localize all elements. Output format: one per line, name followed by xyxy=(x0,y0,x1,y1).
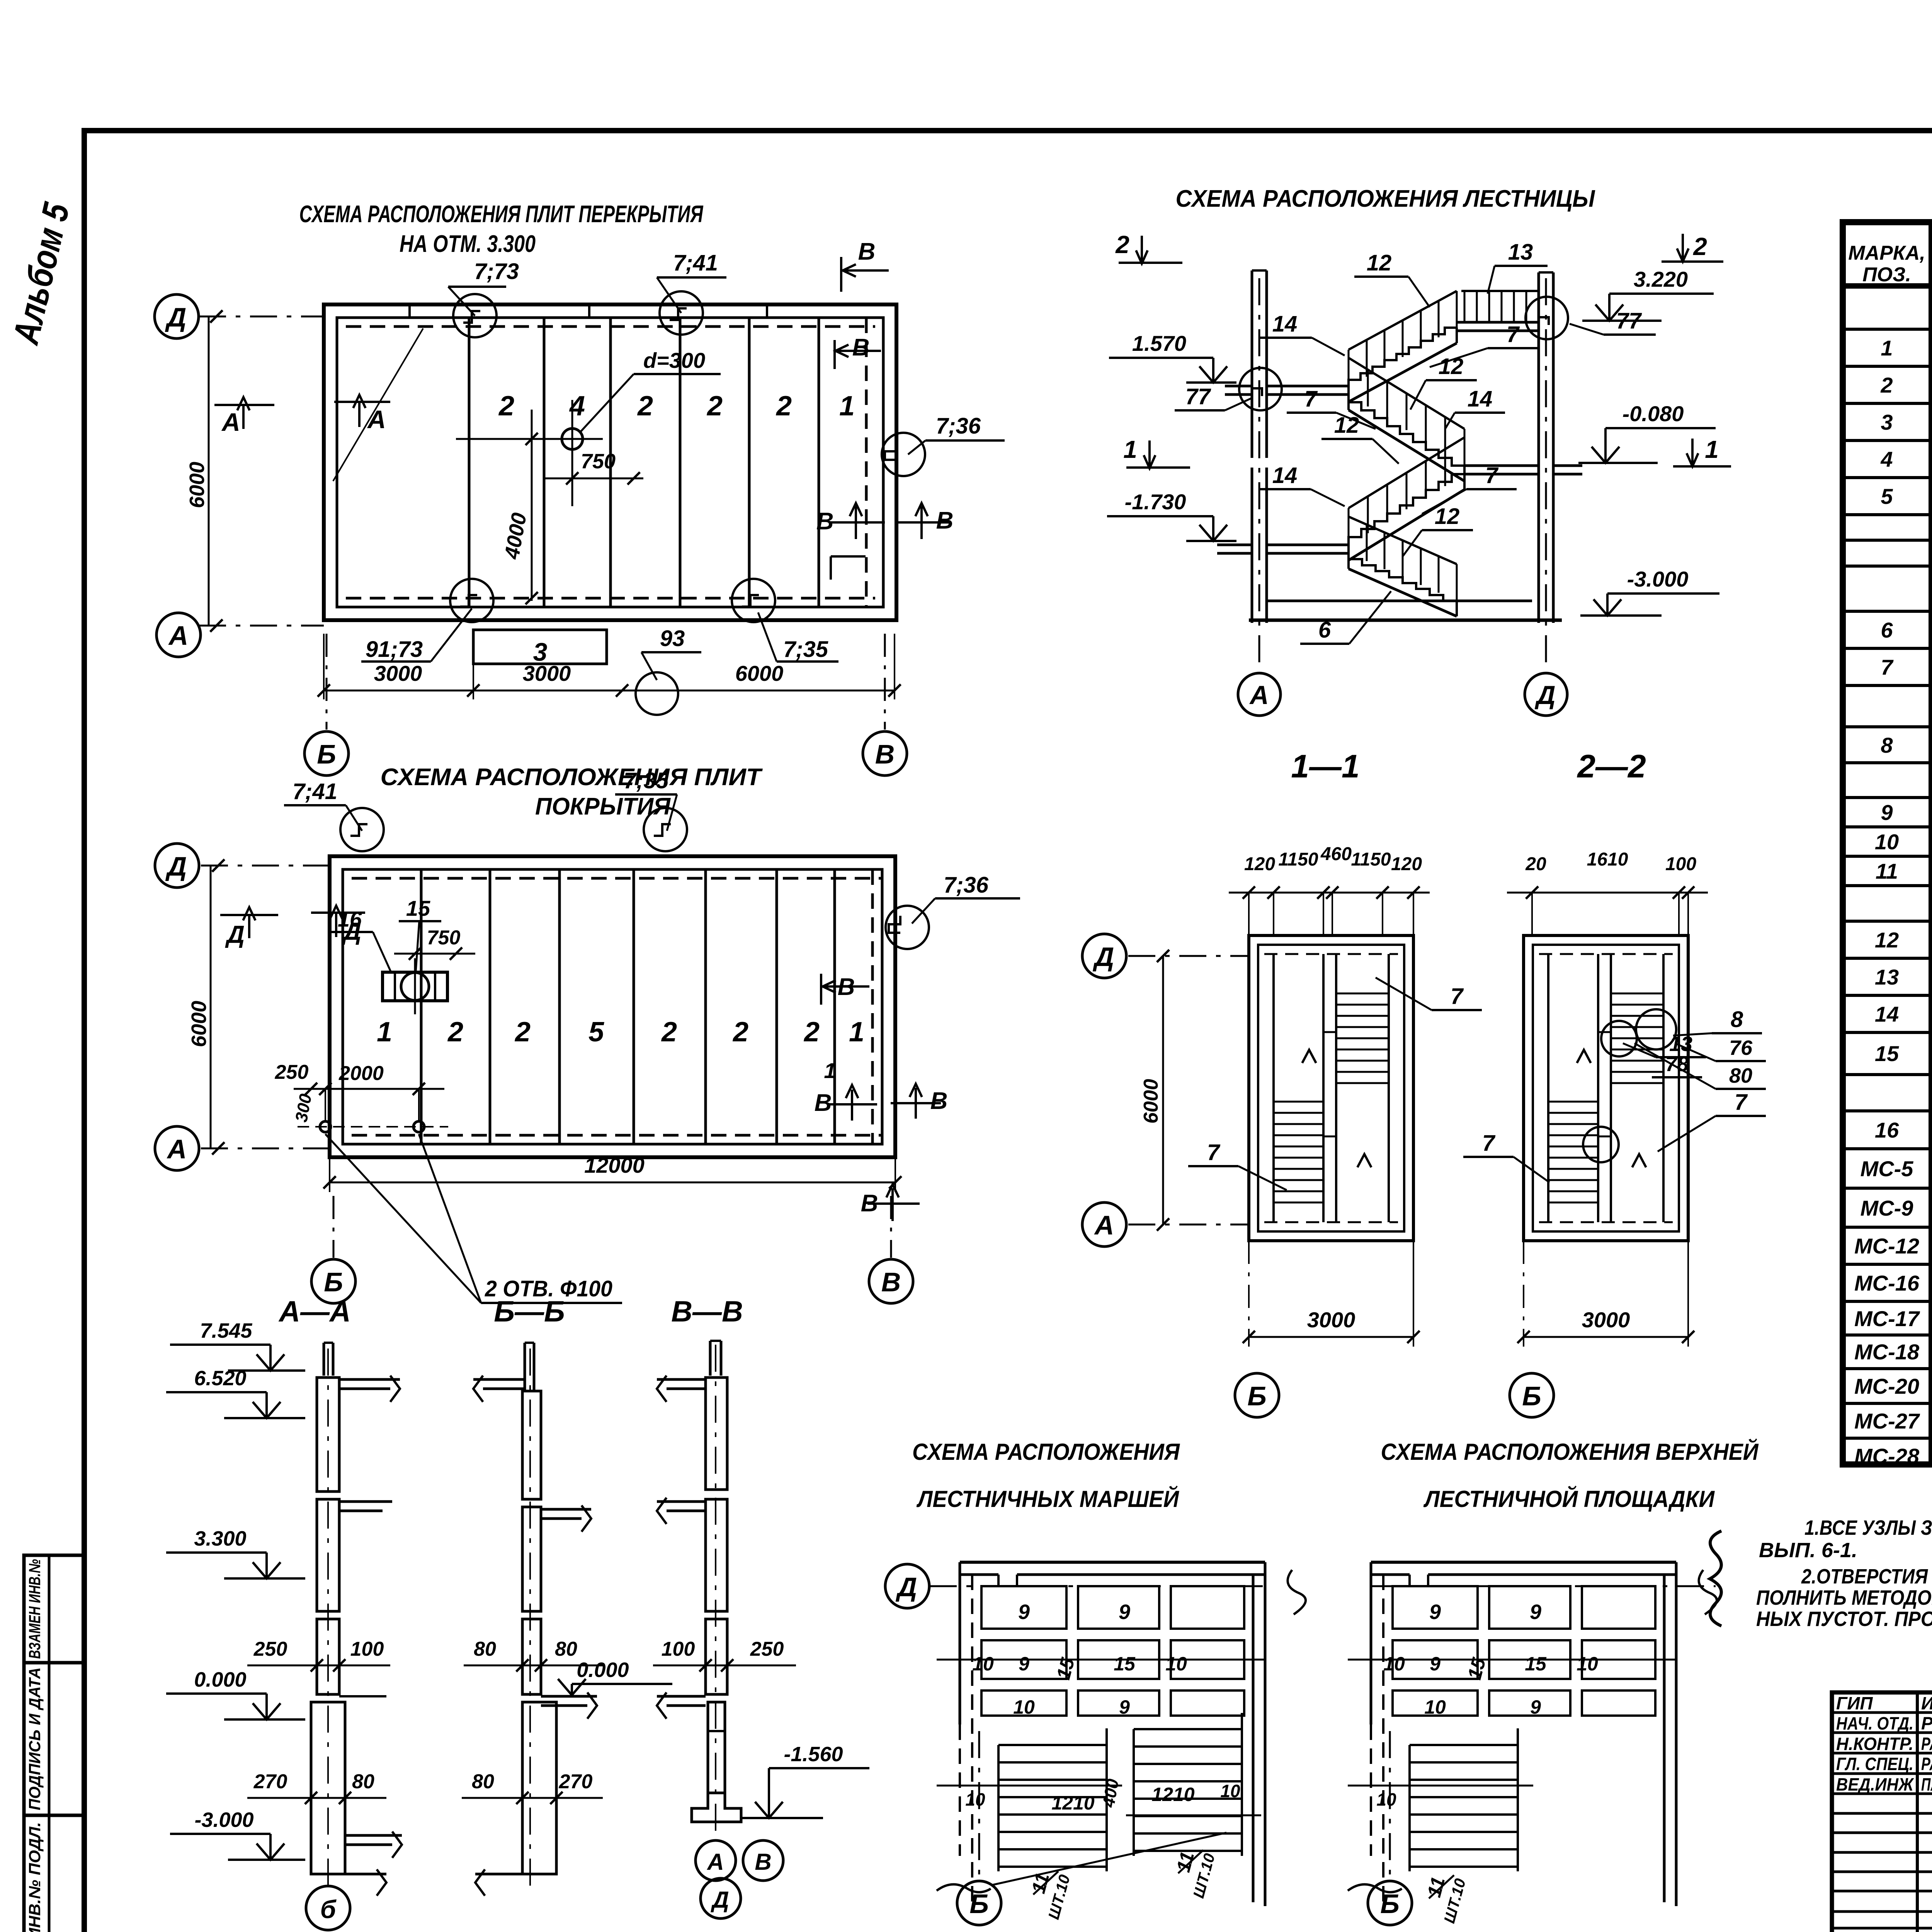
svg-text:7;35: 7;35 xyxy=(624,768,669,793)
svg-text:Б: Б xyxy=(1380,1889,1400,1919)
stairs outside slab right -0080 xyxy=(1553,464,1582,467)
svg-text:2—2: 2—2 xyxy=(1577,748,1646,784)
svg-text:б: б xyxy=(320,1895,337,1923)
svg-text:3000: 3000 xyxy=(1307,1308,1355,1332)
B-B lower wall xyxy=(522,1619,541,1694)
svg-text:7;41: 7;41 xyxy=(673,250,718,276)
svg-text:Б: Б xyxy=(1522,1381,1541,1411)
svg-text:2: 2 xyxy=(732,1017,748,1048)
svg-text:5: 5 xyxy=(1881,484,1893,509)
stairs flight third xyxy=(1349,474,1464,545)
A-A bottom slab stub xyxy=(345,1834,402,1837)
svg-text:9: 9 xyxy=(1530,1600,1541,1624)
V-V floor stub left 3300 xyxy=(657,1500,706,1503)
svg-text:15: 15 xyxy=(1875,1041,1899,1066)
svg-text:МС-5: МС-5 xyxy=(1861,1156,1914,1181)
plan 1-1 dim 6000 xyxy=(1162,956,1164,1225)
svg-text:ПАНКРАТОВА: ПАНКРАТОВА xyxy=(1921,1774,1932,1794)
plan2 section mark D left xyxy=(220,914,278,916)
svg-text:ВЗАМЕН ИНВ.№: ВЗАМЕН ИНВ.№ xyxy=(26,1559,44,1659)
svg-text:Д: Д xyxy=(1534,680,1555,710)
svg-text:2: 2 xyxy=(661,1017,677,1048)
svg-text:2: 2 xyxy=(1880,373,1893,397)
svg-text:3.220: 3.220 xyxy=(1634,267,1688,291)
svg-text:7: 7 xyxy=(1482,1131,1496,1156)
plan1 axis A line xyxy=(199,625,324,627)
svg-text:1.570: 1.570 xyxy=(1132,331,1186,355)
svg-text:В: В xyxy=(875,739,895,769)
plan1 plate 3 below xyxy=(473,630,607,664)
plan1 outer walls xyxy=(324,304,896,620)
svg-text:10: 10 xyxy=(1875,830,1899,854)
svg-text:1: 1 xyxy=(839,391,855,422)
svg-text:2.ОТВЕРСТИЯ В МНОГОПУСТОТНЫХ П: 2.ОТВЕРСТИЯ В МНОГОПУСТОТНЫХ ПЛИТАХ ДО 1… xyxy=(1801,1565,1932,1588)
svg-text:Б: Б xyxy=(324,1267,343,1297)
svg-text:МС-18: МС-18 xyxy=(1854,1340,1920,1364)
B-B floor slab 0000 xyxy=(541,1695,597,1698)
svg-text:14: 14 xyxy=(1272,463,1298,488)
stairs axis circle A xyxy=(1238,673,1281,716)
plan2 interior dashed bottom xyxy=(352,1134,881,1137)
svg-text:12: 12 xyxy=(1435,504,1460,529)
stairs node circle 77 left xyxy=(1239,368,1282,410)
svg-text:-0.080: -0.080 xyxy=(1622,401,1684,426)
svg-text:9: 9 xyxy=(1429,1600,1441,1624)
svg-text:9: 9 xyxy=(1530,1696,1541,1718)
svg-text:12: 12 xyxy=(1439,354,1464,379)
plan1 node circle 7-35 xyxy=(732,579,775,622)
svg-text:Б: Б xyxy=(1247,1381,1267,1411)
sidebar box xyxy=(24,1555,84,1932)
plan1 axis circle V bottom xyxy=(863,731,907,776)
svg-text:12000: 12000 xyxy=(584,1153,645,1177)
stairs outside slab left -1730 xyxy=(1217,544,1252,546)
svg-text:20: 20 xyxy=(1525,854,1546,874)
stairs left wall xyxy=(1251,270,1253,458)
svg-text:НА ОТМ. 3.300: НА ОТМ. 3.300 xyxy=(400,231,536,257)
svg-text:А: А xyxy=(1094,1210,1114,1240)
svg-text:7;36: 7;36 xyxy=(944,872,989,898)
plan1 axis circle D xyxy=(155,294,199,338)
plan 1-1 axis B xyxy=(1235,1373,1279,1417)
svg-text:10: 10 xyxy=(965,1789,985,1810)
plan1 axis B extension xyxy=(326,634,328,730)
svg-text:1.ВСЕ УЗЛЫ ЗАМАРКИРОВАНЫ ПО СЕ: 1.ВСЕ УЗЛЫ ЗАМАРКИРОВАНЫ ПО СЕРИИ 1.090.… xyxy=(1804,1516,1932,1539)
plan1 node circle bottom left xyxy=(450,579,493,622)
svg-text:1: 1 xyxy=(1881,336,1893,360)
svg-text:14: 14 xyxy=(1272,311,1298,337)
svg-text:91;73: 91;73 xyxy=(366,637,423,662)
A-A foundation wall xyxy=(311,1702,345,1874)
svg-text:77: 77 xyxy=(1185,384,1211,409)
svg-text:ГИП: ГИП xyxy=(1836,1693,1873,1713)
svg-text:СХЕМА РАСПОЛОЖЕНИЯ: СХЕМА РАСПОЛОЖЕНИЯ xyxy=(912,1439,1180,1465)
svg-text:7;36: 7;36 xyxy=(936,413,981,439)
svg-text:1210: 1210 xyxy=(1051,1792,1094,1814)
V-V floor stub 0000 xyxy=(657,1695,706,1698)
btm plan flight treads xyxy=(1410,1744,1518,1746)
svg-text:15: 15 xyxy=(1114,1653,1136,1675)
btm plan diagonal cut xyxy=(993,1833,1226,1885)
B-B upper wall xyxy=(522,1391,541,1499)
svg-text:Д: Д xyxy=(225,920,245,948)
svg-text:А: А xyxy=(706,1849,724,1875)
spec table outer border xyxy=(1843,222,1932,1464)
plan 2-2 node circles xyxy=(1601,1021,1637,1056)
plan1 axis circle B bottom xyxy=(304,731,349,776)
V-V mid wall xyxy=(706,1499,727,1611)
svg-text:НЫХ ПУСТОТ. ПРОБИВАТЬ ОТВЕР: НЫХ ПУСТОТ. ПРОБИВАТЬ ОТВЕРСТИЯ НЕ ДОПУС… xyxy=(1756,1607,1932,1631)
plan1 section mark A left xyxy=(214,404,274,406)
svg-text:Б: Б xyxy=(317,739,336,769)
svg-text:СХЕМА РАСПОЛОЖЕНИЯ ПЛИТ ПЕР: СХЕМА РАСПОЛОЖЕНИЯ ПЛИТ ПЕРЕКРЫТИЯ xyxy=(299,201,704,228)
svg-text:В: В xyxy=(852,334,870,361)
svg-text:ПОЛНИТЬ МЕТОДОМ РАССВЕРЛОВКИ: ПОЛНИТЬ МЕТОДОМ РАССВЕРЛОВКИ В МЕСТАХ ПР… xyxy=(1756,1586,1932,1609)
svg-text:В—В: В—В xyxy=(671,1295,743,1328)
svg-text:16: 16 xyxy=(1875,1118,1899,1142)
btm plan break squiggle left bottom xyxy=(937,1884,991,1892)
svg-text:750: 750 xyxy=(581,450,616,473)
plan1 callout circle 93 xyxy=(636,672,678,715)
svg-text:2: 2 xyxy=(637,391,653,422)
btm1 axis D line xyxy=(930,1585,1271,1587)
A-A roof slab stub xyxy=(339,1378,400,1381)
A-A upper wall xyxy=(317,1378,339,1492)
svg-text:Д: Д xyxy=(1093,942,1114,972)
plan1 dashed right vertical xyxy=(865,318,868,607)
svg-text:1: 1 xyxy=(1705,435,1719,463)
svg-text:120: 120 xyxy=(1391,854,1422,874)
svg-text:В: В xyxy=(755,1849,771,1875)
svg-text:Н.КОНТР.: Н.КОНТР. xyxy=(1836,1734,1913,1754)
svg-text:МС-28: МС-28 xyxy=(1854,1444,1920,1468)
svg-text:7: 7 xyxy=(1881,655,1894,679)
plan1 dim 6000 left xyxy=(208,316,210,626)
V-V top post xyxy=(709,1341,712,1376)
svg-text:9: 9 xyxy=(1018,1600,1030,1624)
svg-text:270: 270 xyxy=(559,1770,593,1793)
svg-text:НАЧ. ОТД.: НАЧ. ОТД. xyxy=(1836,1713,1913,1733)
svg-text:-1.730: -1.730 xyxy=(1125,490,1186,514)
svg-text:2000: 2000 xyxy=(338,1062,384,1085)
plan 2-2 top dims xyxy=(1507,892,1708,894)
V-V footing xyxy=(692,1793,741,1822)
stairs outside slab left 1570 xyxy=(1225,385,1252,388)
svg-text:-1.560: -1.560 xyxy=(784,1743,843,1766)
svg-text:7;35: 7;35 xyxy=(783,637,828,662)
svg-text:10: 10 xyxy=(1013,1696,1035,1718)
stairs pit floor -3000 xyxy=(1267,600,1532,602)
plan2 axis D line xyxy=(201,865,330,867)
svg-text:6: 6 xyxy=(1318,617,1331,643)
svg-text:МС-17: МС-17 xyxy=(1854,1306,1920,1331)
B-B centerline xyxy=(529,1349,531,1893)
svg-text:ПОДПИСЬ И ДАТА: ПОДПИСЬ И ДАТА xyxy=(26,1667,44,1810)
plan1 hole d300 circle xyxy=(562,429,583,449)
table empty row xyxy=(1843,539,1932,542)
spec table header row xyxy=(1843,283,1932,289)
svg-text:В: В xyxy=(881,1267,901,1297)
svg-text:7;41: 7;41 xyxy=(293,779,337,804)
svg-text:А: А xyxy=(221,408,240,436)
A-A middle wall xyxy=(317,1499,339,1611)
plan1 node circle 7-41 xyxy=(660,291,703,335)
plan2 small holes 2otv xyxy=(320,1121,331,1132)
svg-text:МС-12: МС-12 xyxy=(1854,1234,1919,1258)
A-A bottom stub xyxy=(333,1873,386,1876)
svg-text:0.000: 0.000 xyxy=(194,1668,246,1691)
svg-text:1: 1 xyxy=(849,1017,864,1048)
svg-text:7: 7 xyxy=(1207,1140,1221,1165)
svg-text:2: 2 xyxy=(803,1017,820,1048)
B-B roof stub left xyxy=(473,1378,525,1381)
svg-text:А: А xyxy=(168,621,189,651)
plan2 node circle 7-36 xyxy=(886,906,929,949)
plan2 bottom dimension 12000 xyxy=(330,1182,895,1184)
svg-text:3: 3 xyxy=(533,638,548,666)
svg-text:10: 10 xyxy=(1577,1653,1598,1675)
svg-text:7: 7 xyxy=(1735,1090,1748,1115)
svg-text:4: 4 xyxy=(1880,447,1893,471)
svg-text:ГЛ. СПЕЦ.: ГЛ. СПЕЦ. xyxy=(1836,1754,1913,1774)
svg-text:13: 13 xyxy=(1669,1032,1692,1056)
svg-text:МС-16: МС-16 xyxy=(1854,1271,1920,1295)
B-B mid wall xyxy=(522,1507,541,1611)
plan2 axis circle D xyxy=(155,844,199,888)
plan2 hole frame 16 xyxy=(383,972,447,1001)
svg-text:93: 93 xyxy=(660,626,685,651)
svg-text:-3.000: -3.000 xyxy=(194,1808,253,1832)
B-B top mast xyxy=(524,1343,526,1391)
svg-text:100: 100 xyxy=(662,1638,695,1660)
svg-text:3: 3 xyxy=(1881,410,1893,434)
svg-text:МС-27: МС-27 xyxy=(1854,1409,1920,1433)
svg-text:6000: 6000 xyxy=(187,1001,211,1047)
svg-text:16: 16 xyxy=(338,907,362,931)
svg-text:ЛЕСТНИЧНОЙ ПЛОЩАДКИ: ЛЕСТНИЧНОЙ ПЛОЩАДКИ xyxy=(1423,1486,1715,1512)
svg-text:СХЕМА РАСПОЛОЖЕНИЯ ПЛИТ: СХЕМА РАСПОЛОЖЕНИЯ ПЛИТ xyxy=(381,764,763,791)
plan2 axis V extension xyxy=(890,1196,892,1258)
svg-text:250: 250 xyxy=(253,1638,287,1660)
svg-text:120: 120 xyxy=(1244,854,1275,874)
svg-text:МС-9: МС-9 xyxy=(1861,1196,1913,1220)
btm plan break squiggle right xyxy=(1699,1570,1717,1614)
svg-text:14: 14 xyxy=(1875,1002,1899,1026)
stairs axis circle D xyxy=(1525,673,1567,716)
plan 1-1 top dims xyxy=(1229,892,1430,894)
svg-text:МС-20: МС-20 xyxy=(1854,1374,1919,1398)
btm plan slab grid xyxy=(1393,1586,1478,1629)
svg-text:ПОЗ.: ПОЗ. xyxy=(1862,264,1911,286)
svg-text:10: 10 xyxy=(1424,1696,1446,1718)
svg-text:А: А xyxy=(1249,680,1269,710)
svg-text:1610: 1610 xyxy=(1587,849,1628,870)
V-V centerline xyxy=(715,1345,716,1839)
btm plan top wall xyxy=(1371,1561,1676,1564)
svg-text:750: 750 xyxy=(427,927,461,949)
plan2 axis B extension xyxy=(333,1196,335,1258)
plan2 axis A line xyxy=(201,1148,330,1150)
svg-text:13: 13 xyxy=(1875,965,1899,989)
svg-text:7.545: 7.545 xyxy=(200,1319,252,1342)
svg-text:Б: Б xyxy=(969,1889,989,1919)
btm plan top wall xyxy=(960,1561,1265,1564)
stairs landing left -1730 xyxy=(1267,544,1349,546)
V-V upper wall xyxy=(706,1378,727,1490)
btm plan right wall xyxy=(1252,1575,1255,1902)
V-V column below xyxy=(708,1702,725,1793)
svg-text:2: 2 xyxy=(1693,233,1707,260)
svg-text:2: 2 xyxy=(447,1017,463,1048)
svg-text:РЫБКИНА: РЫБКИНА xyxy=(1921,1713,1932,1733)
plan 2-2 axis B xyxy=(1510,1373,1554,1417)
A-A centerline xyxy=(327,1349,329,1893)
svg-text:2: 2 xyxy=(514,1017,531,1048)
B-B bottom stub xyxy=(475,1873,530,1876)
plan2 axis circle B bottom xyxy=(311,1259,355,1303)
plan 2-2 walls and stairs xyxy=(1524,935,1688,1241)
stairs flight second xyxy=(1349,395,1464,466)
btm plan left wall xyxy=(959,1562,961,1725)
svg-text:-3.000: -3.000 xyxy=(1627,567,1689,591)
svg-text:А: А xyxy=(367,405,386,434)
svg-text:4: 4 xyxy=(569,391,585,422)
svg-text:80: 80 xyxy=(472,1770,494,1793)
svg-text:5: 5 xyxy=(588,1017,604,1048)
svg-text:270: 270 xyxy=(253,1770,287,1793)
svg-text:Д: Д xyxy=(710,1887,729,1913)
stairs landing left 1570 xyxy=(1267,385,1349,388)
signature table box xyxy=(1832,1692,1932,1932)
A-A axis circle b xyxy=(306,1886,350,1930)
plan1 interior dashed top xyxy=(346,325,875,328)
svg-text:Д: Д xyxy=(896,1572,917,1602)
svg-text:80: 80 xyxy=(352,1770,374,1793)
plan2 section mark D right xyxy=(311,912,365,914)
btm plan left wall xyxy=(1370,1562,1372,1725)
plan1 section mark A right xyxy=(334,401,390,403)
svg-text:А: А xyxy=(167,1134,187,1164)
svg-text:1150: 1150 xyxy=(1278,849,1318,870)
svg-text:1: 1 xyxy=(1123,435,1137,463)
A-A lower wall xyxy=(317,1619,339,1694)
svg-text:10: 10 xyxy=(1383,1653,1405,1675)
svg-text:Д: Д xyxy=(165,302,187,332)
svg-text:15: 15 xyxy=(1525,1653,1547,1675)
svg-text:В: В xyxy=(936,507,954,534)
plan 1-1 dim 3000 xyxy=(1249,1336,1413,1338)
A-A floor stub 0000 xyxy=(339,1695,386,1697)
svg-text:РАШЕВСКИЙ: РАШЕВСКИЙ xyxy=(1921,1734,1932,1754)
svg-text:7: 7 xyxy=(1304,386,1318,412)
svg-text:В: В xyxy=(858,238,876,265)
svg-text:1210: 1210 xyxy=(1151,1784,1194,1805)
svg-text:ПОКРЫТИЯ: ПОКРЫТИЯ xyxy=(535,793,671,820)
stairs bottom line xyxy=(1249,619,1562,622)
btm1 axis circle B xyxy=(957,1881,1001,1925)
svg-text:12: 12 xyxy=(1367,250,1392,276)
svg-text:Д: Д xyxy=(165,851,187,881)
svg-text:100: 100 xyxy=(1665,854,1696,874)
plan2 dim 6000 left xyxy=(210,866,212,1148)
svg-text:11: 11 xyxy=(1876,859,1898,883)
V-V axis circles A V D xyxy=(696,1840,736,1881)
plan2 plate divider lines xyxy=(420,869,423,1144)
svg-text:9: 9 xyxy=(1881,800,1893,825)
svg-text:d=300: d=300 xyxy=(643,348,705,372)
svg-text:0.000: 0.000 xyxy=(577,1658,629,1682)
svg-text:ИВАНОВА: ИВАНОВА xyxy=(1921,1693,1932,1713)
stairs axis line D xyxy=(1545,278,1547,672)
btm plan slab grid xyxy=(981,1586,1066,1629)
btm plan break squiggle right xyxy=(1287,1570,1306,1614)
plan1 node circle 7-73 xyxy=(453,294,497,337)
btm2 axis line xyxy=(1371,1585,1716,1587)
svg-text:1: 1 xyxy=(824,1058,836,1083)
svg-text:10: 10 xyxy=(1220,1781,1240,1801)
btm1 axis circle D xyxy=(885,1564,929,1608)
stairs landing top right 3220 xyxy=(1457,321,1539,324)
svg-text:ИНВ.№ ПОДЛ.: ИНВ.№ ПОДЛ. xyxy=(26,1822,44,1932)
plan2 outer walls xyxy=(330,856,895,1157)
svg-text:А—А: А—А xyxy=(278,1295,351,1328)
plan2 axis circle A xyxy=(155,1126,199,1170)
svg-text:10: 10 xyxy=(1376,1789,1396,1810)
svg-text:9: 9 xyxy=(1430,1653,1440,1675)
svg-text:6000: 6000 xyxy=(735,661,784,685)
svg-text:2: 2 xyxy=(498,391,514,422)
B-B foundation xyxy=(522,1702,556,1874)
svg-text:1: 1 xyxy=(377,1017,392,1048)
svg-text:ВЫП. 6-1.: ВЫП. 6-1. xyxy=(1759,1539,1857,1562)
svg-text:6000: 6000 xyxy=(1140,1079,1162,1124)
svg-text:12: 12 xyxy=(1875,928,1899,952)
plan1 interior dashed bottom xyxy=(346,597,875,600)
svg-text:12: 12 xyxy=(1334,413,1359,438)
svg-text:80: 80 xyxy=(1729,1064,1752,1087)
B-B floor stub 3300 right xyxy=(541,1508,591,1511)
stairs axis line A xyxy=(1259,278,1260,672)
svg-text:10: 10 xyxy=(972,1653,994,1675)
plan1 top wall plate joints xyxy=(408,304,411,318)
btm plan dim lines across xyxy=(937,1659,1265,1661)
plan1 plate divider lines xyxy=(468,318,471,607)
stairs flight top xyxy=(1349,328,1457,386)
A-A floor slab stub 3300 xyxy=(339,1500,392,1503)
svg-text:250: 250 xyxy=(750,1638,784,1660)
plan 1-1 axis D xyxy=(1128,955,1249,957)
stairs landing right -0080 xyxy=(1464,464,1539,467)
svg-text:8: 8 xyxy=(1881,733,1893,757)
stairs flight bottom 6 xyxy=(1349,553,1457,601)
svg-text:9: 9 xyxy=(1019,1653,1029,1675)
plan 2-2 dim 3000 xyxy=(1524,1336,1688,1338)
svg-text:7;73: 7;73 xyxy=(474,259,519,284)
V-V roof stub left xyxy=(657,1378,706,1381)
svg-text:2: 2 xyxy=(1115,231,1129,259)
plan 1-1 walls and stairs xyxy=(1249,935,1413,1241)
svg-text:3000: 3000 xyxy=(374,661,422,685)
btm plan dim lines across xyxy=(1348,1659,1676,1661)
svg-text:В: В xyxy=(930,1088,948,1114)
svg-text:1—1: 1—1 xyxy=(1291,748,1359,784)
plan1 hole d300 centerlines xyxy=(456,438,603,440)
stairs node circle 77 right xyxy=(1526,297,1568,339)
svg-text:СХЕМА РАСПОЛОЖЕНИЯ ЛЕСТНИЦЫ: СХЕМА РАСПОЛОЖЕНИЯ ЛЕСТНИЦЫ xyxy=(1176,185,1596,212)
svg-text:250: 250 xyxy=(275,1061,309,1083)
svg-text:14: 14 xyxy=(1468,386,1493,412)
svg-text:100: 100 xyxy=(350,1638,384,1660)
